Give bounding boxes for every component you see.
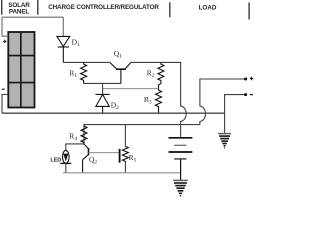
- wire: Q1 collector rail to right: [131, 61, 181, 63]
- label -: [250, 94, 253, 96]
- wire: panel + to D1 (top wire): [2, 17, 63, 36]
- resistor R5: [122, 125, 128, 173]
- transistor Q1: [110, 62, 131, 83]
- wire: load + branch with hop over negative rail: [200, 79, 245, 125]
- LED: [60, 150, 71, 172]
- wire: R4/R5 supply rail: [84, 125, 200, 144]
- zener diode D2: [96, 94, 110, 113]
- preset wiper bar: [119, 149, 121, 163]
- wire: R1 bottom to Q1 base: [84, 82, 121, 84]
- resistor R4: [81, 125, 87, 144]
- wire: panel - lead down: [2, 95, 8, 114]
- panel - terminal label: [2, 88, 5, 90]
- resistor R3: [156, 89, 162, 114]
- wire: emitter rail D1 to Q1: [63, 61, 110, 63]
- battery B1: [169, 138, 193, 180]
- wire: negative rail: [2, 112, 225, 114]
- svg-text:LOAD: LOAD: [199, 5, 217, 12]
- wire: load - branch: [225, 95, 245, 134]
- svg-text:CHARGE CONTROLLER/REGULATOR: CHARGE CONTROLLER/REGULATOR: [48, 4, 159, 11]
- node: load - terminal: [244, 93, 247, 96]
- svg-text:R5: R5: [129, 153, 137, 164]
- svg-text:R3: R3: [144, 95, 152, 106]
- wire: D1 anode lead: [62, 17, 64, 36]
- wire: Q2 base to preset: [89, 152, 120, 154]
- wire: Q2 collector to LED: [66, 144, 84, 151]
- wire: bottom emitter rail to battery: [63, 172, 181, 174]
- resistor R1: [81, 62, 87, 83]
- svg-text:PANEL: PANEL: [9, 9, 30, 16]
- svg-text:R4: R4: [69, 131, 77, 142]
- ground under battery: [173, 180, 188, 195]
- wire: zener node to R2/R3 junction: [103, 88, 159, 90]
- solar panel body: [8, 32, 34, 108]
- diode D1: [57, 36, 70, 62]
- svg-text:Q2: Q2: [89, 155, 97, 166]
- svg-text:LED: LED: [50, 158, 61, 164]
- svg-text:R2: R2: [147, 69, 155, 80]
- wire: collector vertical with hop over negative rail: [181, 62, 187, 137]
- transistor Q2: [83, 144, 89, 173]
- zener D2 cathode lead from base wire: [102, 83, 104, 94]
- header separator bar 2: [37, 0, 38, 15]
- ground at load: [218, 134, 231, 148]
- resistor R2: [158, 62, 164, 88]
- svg-text:Q1: Q1: [114, 49, 122, 60]
- header separator bar 4: [248, 3, 249, 20]
- node: load + terminal: [244, 78, 247, 81]
- panel + terminal label: [3, 40, 6, 43]
- svg-text:R1: R1: [69, 68, 77, 79]
- label +: [250, 77, 254, 81]
- header separator bar 3: [169, 2, 170, 17]
- svg-text:D1: D1: [72, 38, 80, 49]
- svg-text:D2: D2: [111, 101, 119, 112]
- header separator bar 1: [1, 0, 2, 15]
